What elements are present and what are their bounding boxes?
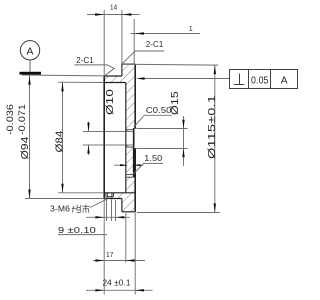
svg-text:17: 17 bbox=[106, 250, 114, 259]
svg-text:Ø10: Ø10 bbox=[104, 89, 116, 115]
svg-text:Ø94: Ø94 bbox=[19, 136, 31, 159]
svg-text:9 ±0.10: 9 ±0.10 bbox=[58, 226, 96, 235]
svg-text:3-M6: 3-M6 bbox=[50, 205, 70, 214]
svg-text:-0.036: -0.036 bbox=[5, 104, 15, 135]
svg-text:0.05: 0.05 bbox=[251, 76, 269, 87]
svg-text:A: A bbox=[281, 76, 288, 87]
svg-text:Ø115±0.1: Ø115±0.1 bbox=[206, 95, 218, 159]
svg-text:Ø15: Ø15 bbox=[169, 91, 181, 115]
svg-text:-0.071: -0.071 bbox=[17, 104, 27, 135]
svg-text:24 ±0.1: 24 ±0.1 bbox=[103, 279, 131, 288]
svg-text:A: A bbox=[27, 46, 34, 57]
svg-text:1.50: 1.50 bbox=[144, 153, 162, 163]
svg-text:2-C1: 2-C1 bbox=[76, 56, 94, 65]
svg-text:14: 14 bbox=[110, 2, 117, 11]
svg-text:1: 1 bbox=[189, 24, 193, 33]
svg-text:Ø84: Ø84 bbox=[54, 130, 66, 152]
svg-text:2-C1: 2-C1 bbox=[146, 40, 164, 49]
